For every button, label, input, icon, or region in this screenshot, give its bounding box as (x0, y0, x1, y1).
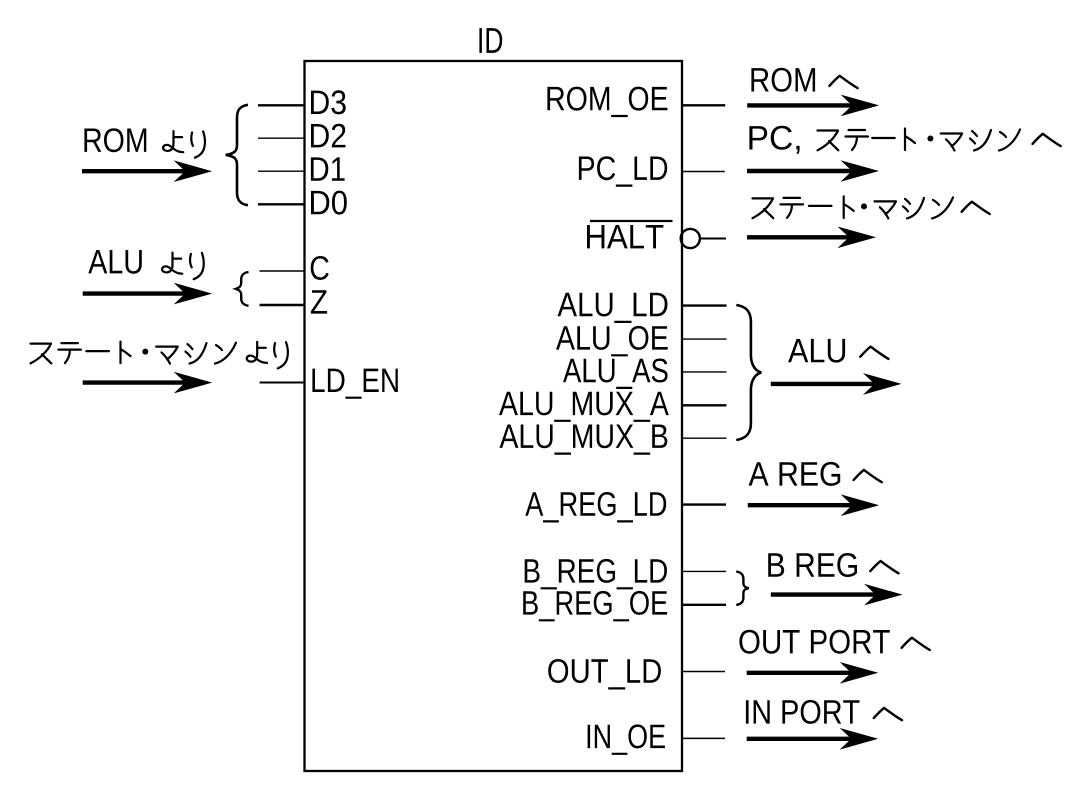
kana yo (163, 131, 183, 152)
label PC, state machine he (749, 126, 1060, 154)
pin label D3 (311, 90, 346, 114)
pin label OUT_LD (548, 659, 661, 690)
wire Z stub (260, 304, 305, 306)
label A REG he (to A REG) (749, 462, 841, 486)
brace for B_REG group (736, 572, 749, 606)
arrow from state machine (83, 372, 213, 394)
wire D0 stub (258, 203, 304, 205)
kana yo (162, 253, 182, 274)
wire IN_OE stub (683, 737, 725, 739)
wire ALU_OE stub (683, 338, 727, 340)
label B REG he (to B REG) (768, 553, 857, 577)
block U1 (ID decoder body) (305, 61, 683, 771)
wire PC_LD stub (683, 171, 725, 173)
wire D2 stub (258, 137, 304, 139)
pin label ALU_AS (563, 359, 668, 390)
pin label IN_OE (588, 724, 665, 755)
kana he (874, 708, 902, 720)
inverter bubble on HALT pin (681, 229, 700, 248)
pin label HALT with overline (587, 225, 663, 248)
arrow to state machine (747, 227, 876, 249)
arrow to PC, state machine (747, 160, 879, 182)
brace for ALU group (736, 305, 761, 440)
arrow to ALU (771, 373, 902, 395)
wire ALU_MUX_A stub (683, 404, 727, 406)
label state machine he (to state machine) (753, 196, 990, 218)
arrow to OUT PORT (747, 662, 879, 684)
wire A_REG_LD stub (683, 503, 726, 505)
pin label D2 (311, 124, 346, 148)
kana he (902, 638, 930, 650)
wire HALT stub (700, 238, 726, 240)
label OUT PORT he (to OUT PORT) (739, 630, 889, 654)
pin label PC_LD (579, 156, 667, 187)
kana he (829, 76, 857, 88)
wire ALU_MUX_B stub (683, 437, 727, 439)
wire ROM_OE stub (683, 104, 725, 106)
pin label ROM_OE (547, 87, 667, 118)
pin label D1 (311, 157, 345, 180)
wire D1 stub (258, 170, 304, 172)
kana he (870, 561, 898, 573)
brace for D3-D0 group (226, 105, 248, 205)
arrow to B REG (771, 584, 903, 606)
pin label D0 (311, 191, 347, 215)
wire ALU_AS stub (683, 371, 727, 373)
pin label Z (311, 290, 327, 313)
pin label ALU_MUX_B (500, 425, 668, 455)
label ALU he (to ALU) (788, 339, 845, 363)
wire B_REG_LD stub (683, 570, 726, 572)
wire ALU_LD stub (683, 304, 727, 306)
pin label A_REG_LD (525, 492, 666, 523)
arrow to ROM (747, 95, 879, 117)
label ROM he (to ROM) (751, 68, 815, 92)
brace for C,Z group (236, 272, 249, 306)
arrow to IN PORT (747, 728, 879, 750)
pin label LD_EN (312, 369, 397, 399)
arrow from ALU (83, 283, 213, 305)
arrow to A REG (748, 494, 879, 516)
pin label ALU_MUX_A (499, 392, 669, 422)
wire OUT_LD stub (683, 671, 725, 673)
arrow from ROM (82, 160, 212, 182)
wire B_REG_OE stub (683, 604, 726, 606)
wire D3 stub (258, 104, 304, 106)
label state machine yori (from state machine) (31, 342, 288, 369)
block title ID (479, 28, 502, 53)
kana ri (190, 253, 204, 279)
pin label ALU_LD (558, 293, 668, 323)
wire C stub (260, 270, 305, 272)
label ALU yori (from ALU) (88, 250, 142, 274)
kana he (860, 347, 888, 359)
pin label B_REG_OE (523, 591, 667, 622)
label ROM yori (from ROM) (84, 128, 146, 152)
pin label B_REG_LD (525, 559, 667, 590)
pin label ALU_OE (556, 326, 668, 357)
kana he (854, 470, 882, 482)
wire LD_EN stub (260, 382, 304, 384)
pin label C (311, 256, 329, 280)
kana ri (191, 131, 205, 157)
label IN PORT he (to IN PORT) (746, 700, 860, 724)
